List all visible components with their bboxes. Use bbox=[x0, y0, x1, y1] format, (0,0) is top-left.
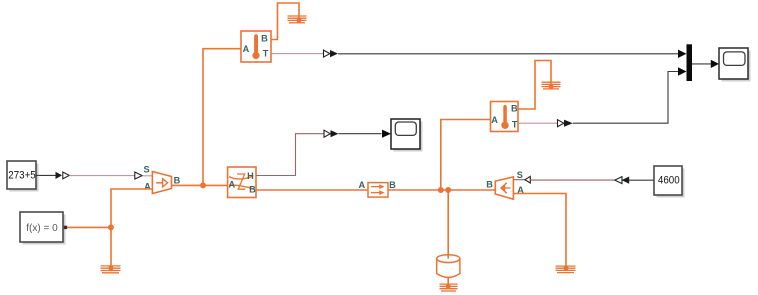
wire switch H port PS line to arrows bbox=[256, 134, 324, 176]
wire node up to sensor2 A port bbox=[441, 120, 491, 191]
svg-text:T: T bbox=[263, 49, 269, 59]
arrow filled end of 4600 signal bbox=[622, 177, 630, 184]
arrow filled start of H signal bbox=[331, 130, 339, 137]
svg-text:A: A bbox=[491, 115, 498, 125]
svg-text:S: S bbox=[517, 170, 523, 180]
arrow open end of T2 PS line bbox=[558, 120, 564, 127]
temperature sensor block S1 bbox=[241, 31, 271, 62]
arrow open end of T1 PS line bbox=[324, 50, 330, 57]
svg-text:A: A bbox=[228, 180, 235, 190]
arrow open PS start bbox=[63, 172, 70, 179]
svg-text:A: A bbox=[358, 180, 365, 190]
svg-text:H: H bbox=[247, 171, 254, 181]
arrow into scope2 bbox=[711, 60, 719, 68]
svg-text:A: A bbox=[243, 44, 250, 54]
wire U2 A port to ground G5 bbox=[513, 194, 566, 269]
svg-text:B: B bbox=[511, 103, 518, 113]
node junction f(x)=0 bbox=[108, 224, 114, 230]
wire stub U2 S port bbox=[513, 179, 525, 181]
wire converter B to node B bbox=[388, 189, 495, 191]
controlled heat source U1 (pentagon) bbox=[152, 172, 171, 194]
wire U1 B port to node A bbox=[172, 184, 228, 186]
wire sensor2 B port to ground G2 bbox=[518, 61, 551, 110]
solver configuration block f(x)=0 bbox=[20, 212, 67, 245]
arrow open end of H PS line bbox=[324, 130, 330, 137]
ground G5 (thermal reference bottom right) bbox=[556, 266, 576, 273]
svg-text:B: B bbox=[389, 180, 396, 190]
arrow into mux input 2 bbox=[678, 67, 687, 75]
arrow filled start of T2 signal bbox=[564, 120, 573, 127]
node junction left bbox=[438, 187, 444, 193]
wire T1 signal to mux input 1 bbox=[338, 53, 679, 55]
switch block SW1 bbox=[228, 167, 256, 198]
wire 4600 output bbox=[629, 179, 654, 181]
ground G3 (thermal reference bottom-left) bbox=[101, 266, 121, 273]
arrow into mux input 1 bbox=[678, 50, 687, 58]
mux block bbox=[687, 44, 693, 81]
svg-text:S: S bbox=[144, 165, 150, 175]
scope block Scope1 bbox=[391, 119, 423, 152]
constant block 4600 bbox=[654, 166, 685, 198]
svg-text:T: T bbox=[512, 120, 518, 130]
ground G1 (thermal reference top) bbox=[288, 16, 307, 23]
wire H signal to scope1 bbox=[339, 133, 382, 135]
constant block 273+5 bbox=[7, 161, 39, 192]
node junction right bbox=[445, 187, 451, 193]
wire mux output to scope2 bbox=[692, 63, 711, 65]
wire constant 273+5 output bbox=[36, 174, 56, 176]
thermal mass block (cylinder) bbox=[437, 255, 460, 278]
wire sensor2 T port PS line bbox=[518, 122, 558, 124]
wire thermal mass to ground G4 bbox=[447, 278, 449, 287]
wire T2 signal to mux input 2 bbox=[573, 72, 678, 124]
wire stub into S port U1 bbox=[142, 175, 152, 177]
arrow open at S port U1 bbox=[135, 172, 142, 179]
wire PS signal to S port of source U1 bbox=[69, 175, 135, 177]
svg-text:B: B bbox=[261, 34, 268, 44]
arrow filled signal end bbox=[56, 172, 63, 179]
wire sensor1 T port PS line bbox=[271, 53, 324, 55]
svg-text:f(x) = 0: f(x) = 0 bbox=[26, 223, 58, 234]
svg-text:A: A bbox=[144, 181, 151, 191]
svg-text:273+5: 273+5 bbox=[8, 169, 36, 181]
wire sensor1 B port to ground G1 bbox=[271, 3, 299, 40]
wire U1 A port to ground node bbox=[111, 189, 152, 268]
wire node down into thermal mass bbox=[447, 190, 449, 259]
ground G4 (thermal reference below mass) bbox=[440, 284, 458, 291]
temperature sensor block S2 bbox=[491, 102, 519, 132]
wire switch B port to converter A bbox=[256, 189, 368, 191]
scope block Scope2 bbox=[719, 48, 751, 82]
svg-text:B: B bbox=[249, 184, 256, 194]
svg-text:B: B bbox=[174, 175, 181, 185]
wire solver config to node bbox=[67, 226, 111, 228]
svg-text:4600: 4600 bbox=[658, 174, 680, 186]
arrow into scope1 bbox=[382, 130, 391, 138]
controlled heat source U2 (flipped pentagon) bbox=[495, 177, 513, 199]
ground G2 (thermal reference upper right) bbox=[542, 82, 561, 89]
arrow open at S port U2 bbox=[525, 176, 530, 183]
wire PS line 4600 to U2 bbox=[530, 179, 614, 181]
converter block A-B bbox=[368, 183, 388, 198]
arrow open end of 4600 PS line bbox=[615, 177, 622, 184]
arrow filled start of T1 signal bbox=[330, 50, 338, 57]
svg-text:B: B bbox=[486, 179, 493, 189]
wire node A up to sensor1 A port bbox=[203, 49, 241, 186]
node A junction bbox=[200, 182, 206, 188]
